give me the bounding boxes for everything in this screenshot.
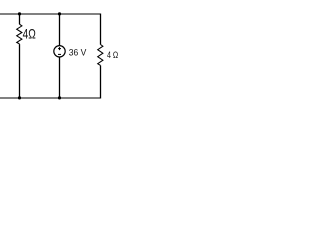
junction dot bottom-middle [58,96,61,99]
svg-text:4 Ω: 4 Ω [107,49,118,60]
wire left branch upper [19,14,21,25]
voltage source V1 36 V [54,46,65,57]
wire right branch lower [100,66,102,99]
wire middle branch lower [59,57,61,99]
wire middle branch upper [59,14,61,46]
minus sign [58,53,61,55]
wire left branch lower [19,44,21,98]
svg-text:36 V: 36 V [69,47,87,58]
resistor R2 4Ω (right) [98,45,103,66]
junction dot top-middle [58,12,61,15]
junction dot top-left [18,12,21,15]
plus sign [58,47,61,50]
junction dot bottom-left [18,96,21,99]
svg-text:4Ω: 4Ω [23,27,36,42]
wire top rail [0,13,101,15]
wire bottom rail [0,97,101,99]
resistor R1 4Ω (left) [17,24,22,44]
wire right branch upper [100,14,102,45]
